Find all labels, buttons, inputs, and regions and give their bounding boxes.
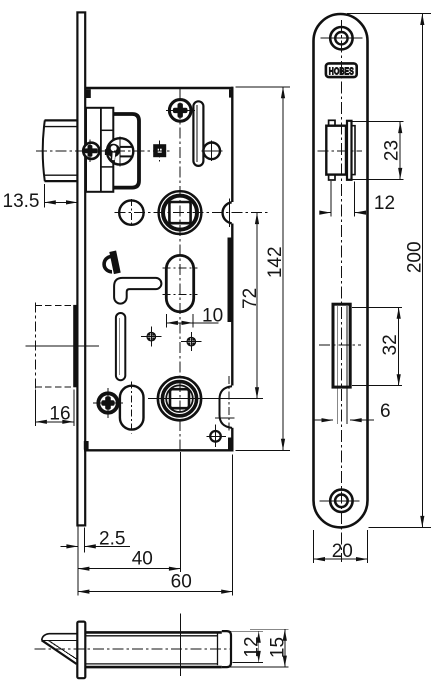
svg-text:23: 23 [382, 140, 403, 161]
svg-text:60: 60 [171, 572, 192, 593]
svg-text:13.5: 13.5 [3, 191, 40, 212]
svg-text:12: 12 [242, 636, 263, 657]
svg-text:72: 72 [240, 288, 261, 309]
svg-text:12: 12 [374, 193, 395, 214]
svg-text:10: 10 [202, 306, 223, 327]
svg-text:32: 32 [380, 334, 401, 355]
svg-text:6: 6 [380, 401, 391, 422]
svg-text:20: 20 [332, 541, 353, 562]
svg-text:16: 16 [49, 404, 70, 425]
svg-text:2.5: 2.5 [99, 529, 125, 550]
svg-text:40: 40 [132, 549, 153, 570]
svg-text:HOBES: HOBES [329, 66, 354, 78]
svg-text:200: 200 [405, 241, 426, 273]
svg-text:15: 15 [268, 637, 289, 658]
svg-text:142: 142 [265, 246, 286, 278]
